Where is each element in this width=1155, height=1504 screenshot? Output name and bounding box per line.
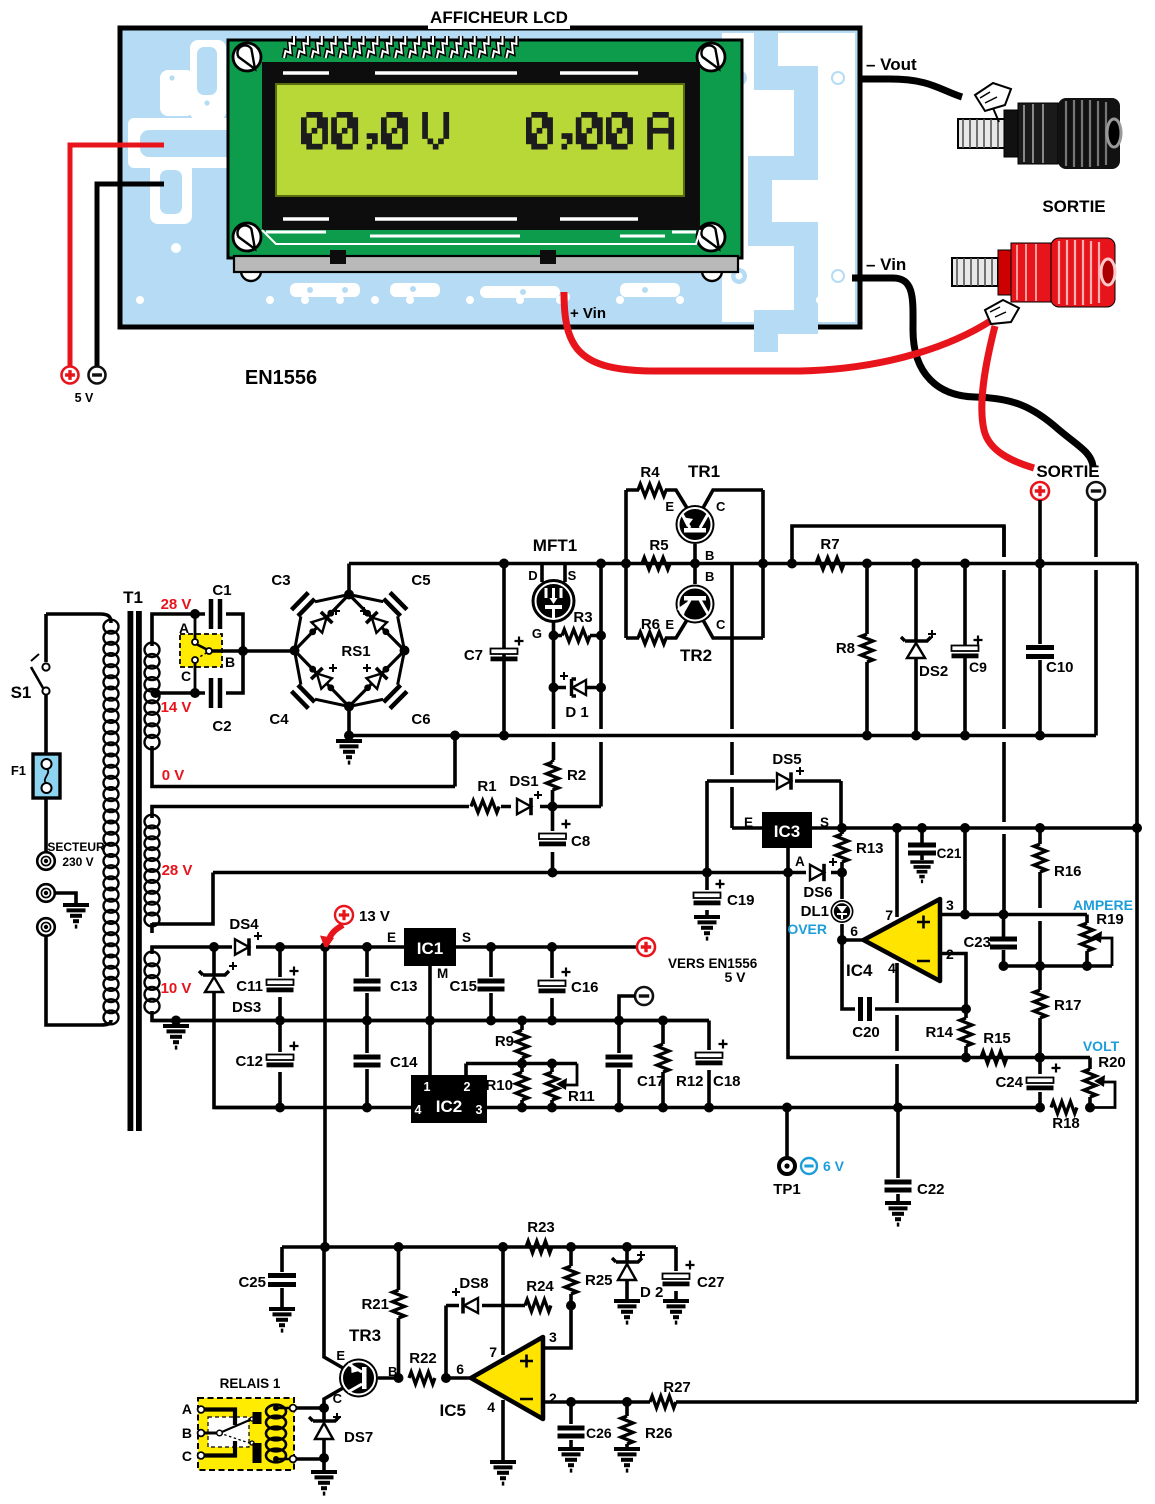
svg-text:R9: R9 <box>495 1033 514 1050</box>
wire primary bottom <box>46 936 111 1025</box>
wire coil top <box>296 1406 324 1410</box>
ground D2 <box>614 1301 640 1323</box>
svg-text:R22: R22 <box>409 1350 437 1367</box>
svg-text:R18: R18 <box>1052 1115 1080 1132</box>
wire DS5 line <box>707 781 841 828</box>
svg-text:IC2: IC2 <box>436 1097 462 1116</box>
svg-text:C4: C4 <box>269 711 289 728</box>
label 0 V <box>162 767 185 784</box>
svg-text:R2: R2 <box>567 767 586 784</box>
regulator IC2 <box>411 1075 487 1123</box>
svg-text:C27: C27 <box>697 1274 725 1291</box>
wire TR1 B <box>695 544 714 564</box>
node C26 top <box>566 1397 576 1407</box>
relay RELAIS1 box <box>198 1376 294 1470</box>
capacitor C2 <box>195 651 243 735</box>
diode DS6 <box>803 858 837 901</box>
svg-text:B: B <box>182 1425 192 1441</box>
bridge corner nodes <box>290 590 410 712</box>
svg-text:C18: C18 <box>713 1073 741 1090</box>
resistor R6 <box>626 616 687 644</box>
switch S1 <box>11 614 50 755</box>
node C11 bottom <box>275 1016 285 1026</box>
wire DS8 branch <box>446 1306 525 1379</box>
node DS6 right <box>837 868 847 878</box>
svg-text:6 V: 6 V <box>823 1158 845 1174</box>
svg-text:R11: R11 <box>568 1088 595 1105</box>
label 28 V <box>161 596 192 613</box>
node D2 top <box>622 1242 632 1252</box>
node C15 top <box>486 942 496 952</box>
wire rail to IC3 E <box>732 564 762 829</box>
terminal secteur 2 <box>37 884 55 902</box>
svg-text:DS7: DS7 <box>344 1429 373 1446</box>
svg-text:DS2: DS2 <box>919 663 948 680</box>
svg-text:DS6: DS6 <box>803 884 832 901</box>
svg-text:DL1: DL1 <box>801 903 829 920</box>
svg-text:T1: T1 <box>123 588 143 607</box>
wire -Vout <box>858 79 962 97</box>
label 6V <box>801 1158 845 1174</box>
node R14 bottom <box>961 1053 971 1063</box>
resistor R8 <box>836 564 873 736</box>
node D1 right <box>596 683 606 693</box>
wire -Vin black <box>852 278 1093 466</box>
wire rail 1247 <box>282 1245 676 1249</box>
wire pin2 <box>940 954 966 1010</box>
svg-text:MFT1: MFT1 <box>533 536 577 555</box>
black binding post <box>958 83 1121 169</box>
resistor R27 <box>650 1379 691 1408</box>
svg-text:C3: C3 <box>271 572 290 589</box>
svg-text:R3: R3 <box>573 609 592 626</box>
svg-text:C22: C22 <box>917 1181 945 1198</box>
svg-text:C2: C2 <box>212 718 231 735</box>
svg-text:C10: C10 <box>1046 659 1074 676</box>
wire pin3 <box>940 823 1087 920</box>
node C13 bottom <box>362 1016 372 1026</box>
wire secteur2 to ground <box>55 893 76 903</box>
wire S rail <box>812 826 1137 830</box>
svg-text:C: C <box>181 668 191 684</box>
node TR collectors <box>758 559 768 569</box>
svg-text:6: 6 <box>850 923 858 939</box>
svg-text:5 V: 5 V <box>75 391 94 405</box>
capacitor C10 <box>1026 564 1074 736</box>
wire RS1 top to rail <box>347 564 351 595</box>
bridge diode nodes <box>309 610 389 691</box>
svg-text:C23: C23 <box>963 934 991 951</box>
resistor R24 <box>525 1278 554 1312</box>
capacitor C22 <box>885 1108 945 1203</box>
node DS2 top <box>911 559 921 569</box>
node C8 bottom <box>548 868 558 878</box>
svg-text:C: C <box>716 617 726 632</box>
wire C20 line <box>842 940 966 1009</box>
capacitor C12 <box>235 1021 298 1108</box>
svg-text:C14: C14 <box>390 1054 418 1071</box>
svg-text:+ Vin: + Vin <box>570 305 606 322</box>
red wire 5V <box>70 145 164 366</box>
screw 1 <box>233 43 261 71</box>
label EN1556 <box>245 367 317 389</box>
node R9 top <box>517 1016 527 1026</box>
resistor R21 <box>361 1247 404 1378</box>
resistor R22 <box>409 1350 437 1384</box>
resistor R16 <box>1034 828 1082 966</box>
resistor R2 <box>547 760 587 807</box>
node R3 right <box>596 631 606 641</box>
selector switch <box>179 614 235 693</box>
svg-text:C: C <box>333 1391 343 1406</box>
node C9 bottom <box>960 731 970 741</box>
terminal +5V <box>62 367 79 384</box>
svg-text:R23: R23 <box>527 1219 555 1236</box>
svg-text:TR2: TR2 <box>680 646 712 665</box>
svg-text:2: 2 <box>464 1080 471 1094</box>
node C10 top <box>1035 559 1045 569</box>
resistor R18 <box>1051 1102 1080 1133</box>
terminal sortie + top <box>1031 482 1049 500</box>
trimmer R11 <box>546 1064 595 1108</box>
wire pin4 <box>895 963 899 1108</box>
ground C19 <box>694 917 720 939</box>
bridge diode top-left <box>312 612 333 633</box>
arrow 13V <box>320 925 343 950</box>
bridge diode bottom-left <box>311 668 332 689</box>
led DL1 <box>787 873 853 941</box>
label AFFICHEUR LCD <box>428 5 570 29</box>
svg-text:C24: C24 <box>995 1074 1023 1091</box>
ground DS7 <box>311 1472 337 1494</box>
svg-text:4: 4 <box>415 1103 422 1117</box>
wire IC1 M <box>428 966 432 1075</box>
mosfet MFT1 <box>528 536 577 641</box>
capacitor C14 <box>354 1021 419 1108</box>
svg-text:D 1: D 1 <box>565 704 588 721</box>
node C20 right <box>961 1004 971 1014</box>
svg-text:R6: R6 <box>641 616 660 633</box>
svg-text:B: B <box>705 548 714 563</box>
terminal 5V plus <box>637 938 655 956</box>
wire 28V-2 bottom <box>152 873 213 934</box>
wire 10V bottom <box>152 1011 709 1021</box>
diode DS1 <box>501 773 601 815</box>
capacitor C4 <box>269 651 349 729</box>
svg-text:E: E <box>744 815 753 830</box>
LCD pin header <box>284 36 516 58</box>
label SORTIE top <box>1042 197 1105 216</box>
LCD bezel <box>262 62 700 244</box>
label 5 V <box>75 391 94 405</box>
svg-text:4: 4 <box>487 1399 495 1415</box>
wire rail mid <box>349 734 1096 738</box>
node G <box>549 631 559 641</box>
wire pin2 IC5 <box>543 1400 1137 1404</box>
wire 966 line <box>1004 964 1113 968</box>
zener DS2 <box>901 564 948 736</box>
node RS1 bottom <box>344 731 354 741</box>
svg-text:R19: R19 <box>1096 911 1124 928</box>
resistor R5 <box>642 537 670 570</box>
svg-text:IC5: IC5 <box>440 1401 466 1420</box>
svg-text:3: 3 <box>549 1329 557 1345</box>
wire sortie minus <box>1094 500 1098 736</box>
capacitor C17 <box>606 1021 665 1108</box>
PCB board EN1556 <box>120 28 860 327</box>
resistor R7 <box>816 536 844 570</box>
svg-text:C26: C26 <box>586 1425 612 1441</box>
ground C26 <box>558 1449 584 1471</box>
svg-text:C11: C11 <box>236 978 263 995</box>
svg-text:S: S <box>462 930 471 945</box>
ground C27 <box>663 1301 689 1323</box>
node R9 bottom <box>517 1059 527 1069</box>
svg-text:C17: C17 <box>637 1073 665 1090</box>
wire R7 loop <box>792 526 1004 564</box>
node R20 bottom <box>1085 1103 1095 1113</box>
capacitor C24 <box>995 1058 1060 1108</box>
node R8 bottom <box>862 731 872 741</box>
screw 2 <box>697 43 725 71</box>
svg-text:28 V: 28 V <box>162 862 193 879</box>
label SORTIE bottom <box>1036 462 1099 481</box>
svg-text:1: 1 <box>424 1080 431 1094</box>
wire 0V riser <box>453 736 457 787</box>
label VERS EN1556 <box>668 956 758 971</box>
wire selector B <box>212 649 294 653</box>
svg-text:0 V: 0 V <box>162 767 185 784</box>
node C11 top <box>275 942 285 952</box>
node R25 top <box>566 1242 576 1252</box>
node R17 bottom <box>1035 1053 1045 1063</box>
resistor R9 <box>495 1021 528 1064</box>
svg-text:G: G <box>532 626 542 641</box>
wire IC3 A <box>788 848 1090 1058</box>
trimmer R20 <box>1084 1054 1126 1108</box>
terminal secteur 3 <box>37 918 55 936</box>
label +Vin <box>570 305 606 322</box>
transformer core <box>128 611 142 1131</box>
node B <box>238 646 248 656</box>
capacitor C5 <box>349 572 431 651</box>
node R12 bottom <box>658 1103 668 1113</box>
svg-text:3: 3 <box>476 1103 483 1117</box>
svg-text:VOLT: VOLT <box>1083 1038 1120 1054</box>
node R8 top <box>862 559 872 569</box>
wire coil bottom <box>296 1457 324 1461</box>
svg-text:TR3: TR3 <box>349 1326 381 1345</box>
op-amp IC4 <box>846 897 954 981</box>
label -Vin <box>866 255 906 274</box>
svg-text:F1: F1 <box>11 763 26 778</box>
node R22 right <box>441 1373 451 1383</box>
node C16 bottom <box>547 1016 557 1026</box>
node M rail <box>425 1016 435 1026</box>
svg-text:D 2: D 2 <box>640 1284 663 1301</box>
svg-text:R26: R26 <box>645 1425 673 1442</box>
svg-text:E: E <box>387 930 396 945</box>
resistor R12 <box>657 1021 704 1108</box>
resistor R15 <box>981 1030 1011 1064</box>
svg-text:SORTIE: SORTIE <box>1036 462 1099 481</box>
node C24 top <box>1035 1053 1045 1063</box>
label -Vout <box>866 55 917 74</box>
svg-text:D: D <box>528 568 537 583</box>
terminal -5V <box>89 367 106 384</box>
secondary winding 1 <box>145 643 160 750</box>
wire bypass column <box>1002 526 1006 915</box>
node R10 bottom <box>517 1103 527 1113</box>
svg-text:10 V: 10 V <box>161 980 192 997</box>
resistor R3 <box>554 609 602 642</box>
terminal 5V minus <box>635 987 653 1005</box>
svg-text:SORTIE: SORTIE <box>1042 197 1105 216</box>
node C12 bottom <box>275 1103 285 1113</box>
wire pin7 <box>895 828 899 917</box>
svg-text:3: 3 <box>946 897 954 913</box>
svg-text:28 V: 28 V <box>161 596 192 613</box>
svg-text:R8: R8 <box>836 640 855 657</box>
label VOLT <box>1083 1038 1120 1054</box>
ground RS1 <box>336 741 362 763</box>
svg-text:4: 4 <box>888 960 896 976</box>
svg-text:IC4: IC4 <box>846 961 873 980</box>
wire 1063 line <box>466 1064 577 1076</box>
svg-text:DS1: DS1 <box>509 773 538 790</box>
diode DS8 <box>452 1275 489 1314</box>
diode DS5 <box>772 751 804 790</box>
svg-text:TP1: TP1 <box>773 1181 801 1198</box>
transistor TR3 <box>333 1326 398 1406</box>
capacitor C3 <box>271 572 349 651</box>
node R24 right <box>566 1301 576 1311</box>
op-amp IC5 <box>440 1329 557 1420</box>
wire RS1 bottom <box>347 707 351 736</box>
node C9 top <box>960 559 970 569</box>
node 13V rail <box>320 1242 330 1252</box>
svg-text:S1: S1 <box>11 683 32 702</box>
node R12 top <box>658 1016 668 1026</box>
svg-text:R21: R21 <box>361 1296 389 1313</box>
node A28 <box>190 609 200 619</box>
node DS1 R2 <box>548 802 558 812</box>
wire TR2 C <box>703 620 763 638</box>
svg-text:DS4: DS4 <box>229 916 259 933</box>
red wire to sortie+ <box>982 326 1034 468</box>
node TP1 rail <box>782 1103 792 1113</box>
svg-text:EN1556: EN1556 <box>245 367 317 389</box>
node R16 bottom <box>1035 961 1045 971</box>
svg-text:C13: C13 <box>390 978 418 995</box>
node DS7 bottom <box>319 1453 329 1471</box>
svg-text:C: C <box>182 1448 192 1464</box>
svg-text:C1: C1 <box>212 582 231 599</box>
svg-text:R24: R24 <box>526 1278 554 1295</box>
node 0V riser <box>450 731 460 741</box>
transistor TR1 <box>665 462 726 544</box>
svg-text:R5: R5 <box>649 537 668 554</box>
node C7 top <box>499 559 509 569</box>
wire tap 0V <box>152 746 455 787</box>
svg-text:– Vin: – Vin <box>866 255 906 274</box>
svg-text:E: E <box>336 1348 345 1363</box>
LCD text <box>301 112 674 150</box>
diode DS4 <box>229 916 262 956</box>
node R13 top <box>837 823 847 833</box>
label 10 V <box>161 980 192 997</box>
wire rail 1020 <box>152 1019 709 1023</box>
capacitor C18 <box>696 1021 741 1108</box>
label 13 V <box>335 906 390 925</box>
node R7 left <box>787 559 797 569</box>
svg-text:DS8: DS8 <box>459 1275 488 1292</box>
svg-text:R16: R16 <box>1054 863 1082 880</box>
transistor TR2 <box>665 564 726 666</box>
svg-text:AFFICHEUR LCD: AFFICHEUR LCD <box>430 8 568 27</box>
zener DS3 <box>199 947 280 1108</box>
svg-text:R14: R14 <box>925 1024 953 1041</box>
wire TR3 C <box>324 1388 343 1408</box>
node pin6 <box>837 935 847 945</box>
svg-text:14 V: 14 V <box>161 699 192 716</box>
node C13 top <box>362 942 372 952</box>
wire tap 28V <box>152 614 195 646</box>
ground secteur <box>63 905 89 927</box>
PCB traces left <box>128 40 252 253</box>
capacitor C7 <box>464 564 524 736</box>
svg-text:R27: R27 <box>663 1379 691 1396</box>
LCD screen <box>276 84 684 196</box>
svg-text:M: M <box>437 966 448 981</box>
svg-text:C8: C8 <box>571 833 590 850</box>
node D1 left <box>549 683 559 693</box>
svg-text:C9: C9 <box>969 659 987 675</box>
relay coil <box>266 1405 296 1463</box>
screw 4 <box>697 223 725 251</box>
node C18 bottom <box>704 1103 714 1113</box>
wire pin3 IC5 <box>543 1306 571 1349</box>
capacitor C15 <box>449 947 504 1021</box>
svg-text:R20: R20 <box>1098 1054 1126 1071</box>
wire sortie plus <box>1038 500 1042 564</box>
wire 10V top <box>152 947 232 954</box>
node C16 top <box>547 942 557 952</box>
node DS3 top <box>209 942 219 952</box>
svg-text:E: E <box>665 617 674 632</box>
node R21 top <box>394 1242 404 1252</box>
regulator IC1 <box>387 928 471 981</box>
svg-text:C7: C7 <box>464 647 483 664</box>
node DS2 bottom <box>911 731 921 741</box>
capacitor C13 <box>354 947 418 1021</box>
svg-text:C21: C21 <box>937 846 962 861</box>
wire right column <box>1135 564 1139 1403</box>
resistor R13 <box>836 828 884 873</box>
svg-text:230 V: 230 V <box>62 855 93 869</box>
node C10 bottom <box>1035 731 1045 741</box>
wire primary top <box>46 614 111 623</box>
ground R26 <box>614 1449 640 1471</box>
node R21 bottom <box>394 1373 404 1383</box>
node 13V <box>320 942 330 952</box>
node S rail right <box>1132 823 1142 833</box>
red binding post <box>952 238 1115 324</box>
svg-text:C16: C16 <box>571 979 599 996</box>
wire TR collectors <box>761 490 765 638</box>
svg-text:R17: R17 <box>1054 997 1082 1014</box>
wire pin4 IC5 <box>501 1400 505 1460</box>
